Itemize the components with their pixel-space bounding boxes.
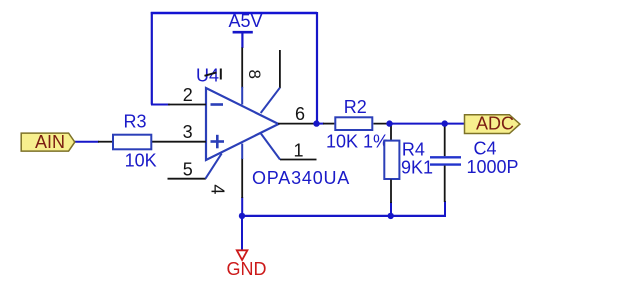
svg-text:1000P: 1000P	[466, 157, 518, 177]
pin 4 connector	[241, 144, 243, 159]
svg-text:1: 1	[293, 141, 303, 161]
svg-text:OPA340UA: OPA340UA	[252, 168, 350, 188]
wire feedback top horizontal	[151, 12, 317, 14]
pin number 7 (rotated)	[205, 69, 221, 80]
pin 1 stub	[280, 159, 317, 161]
power symbol A5V bar	[233, 32, 253, 48]
pin 5 connector diagonal	[205, 153, 221, 178]
svg-text:4: 4	[207, 184, 227, 194]
wire C4 bottom vertical	[444, 201, 446, 217]
resistor R4 bottom lead	[390, 180, 392, 204]
op-amp minus symbol	[211, 103, 224, 106]
svg-text:9K1: 9K1	[401, 158, 433, 178]
junction output node	[313, 120, 319, 126]
pin 4 stub	[241, 158, 243, 198]
port AIN flag	[21, 133, 75, 151]
pin 8 connector	[241, 87, 243, 105]
op-amp U1 triangle body	[206, 88, 279, 160]
wire feedback left vertical	[151, 12, 153, 105]
pin 7 stub	[279, 50, 281, 88]
capacitor C4 bottom lead	[444, 166, 446, 202]
junction GND node	[239, 213, 245, 219]
pin 5 stub	[168, 178, 206, 180]
resistor R4 body	[384, 141, 399, 179]
op-amp plus symbol	[211, 135, 225, 149]
svg-text:5: 5	[183, 159, 193, 179]
svg-text:ADC: ADC	[476, 114, 514, 134]
resistor R2 right lead	[374, 123, 391, 125]
pin 2 stub	[168, 104, 206, 106]
svg-text:R2: R2	[344, 97, 367, 117]
wire output junction to R2	[317, 123, 325, 125]
svg-text:10K 1%: 10K 1%	[326, 131, 389, 151]
pin 1 connector diagonal	[261, 133, 281, 160]
pin 8 stub	[241, 48, 243, 89]
capacitor C4 bottom plate	[430, 163, 461, 165]
wire pin 4 to bottom junction	[241, 197, 243, 216]
capacitor C4 top plate	[430, 156, 461, 158]
svg-text:AIN: AIN	[35, 132, 65, 152]
wire junction to ADC flag	[445, 123, 465, 125]
wire bottom horizontal	[242, 215, 445, 217]
svg-text:GND: GND	[227, 259, 267, 279]
svg-text:3: 3	[183, 122, 193, 142]
svg-text:R4: R4	[402, 140, 425, 160]
capacitor C4 top lead	[444, 126, 446, 156]
wire junction to GND	[241, 216, 243, 250]
svg-text:6: 6	[295, 104, 305, 124]
junction C4 top node	[442, 120, 448, 126]
resistor R4 top lead	[390, 125, 392, 141]
ground symbol arrow	[237, 250, 248, 260]
pin 6 stub	[278, 123, 317, 125]
resistor R2 left lead	[323, 123, 334, 125]
svg-text:A5V: A5V	[228, 11, 262, 31]
junction R4 bottom node	[388, 213, 394, 219]
pin 3 stub	[151, 141, 206, 143]
resistor R3 left lead	[98, 141, 113, 143]
wire R4 bottom to junction	[390, 202, 392, 216]
svg-text:2: 2	[183, 85, 193, 105]
wire AIN to R3	[74, 141, 99, 143]
wire to pin 2	[151, 104, 170, 106]
svg-text:R3: R3	[123, 112, 146, 132]
port ADC flag	[465, 115, 520, 134]
wire R2 to C4 junction	[390, 123, 445, 125]
resistor R2 body	[335, 117, 372, 130]
wire feedback right vertical	[316, 12, 318, 124]
pin 7 connector diagonal	[261, 88, 280, 113]
svg-text:8: 8	[245, 69, 264, 78]
resistor R3 body	[113, 135, 151, 150]
junction R2-R4 node	[386, 120, 392, 126]
svg-text:10K: 10K	[125, 151, 157, 171]
svg-text:C4: C4	[473, 138, 496, 158]
